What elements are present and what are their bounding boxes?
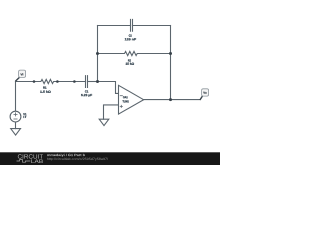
- flag Vo pointer: [200, 96, 203, 100]
- flag Vi text: [20, 73, 23, 75]
- flag Vi pointer: [15, 77, 19, 81]
- label C1: [85, 90, 88, 92]
- label V1: [23, 113, 26, 115]
- top feedback wire right segment: [133, 25, 171, 27]
- value C2 126 nF: [125, 38, 136, 40]
- op-amp minus sign: [120, 95, 122, 97]
- value R1 1.5 kOhm: [40, 91, 50, 93]
- CircuitLab logo waveform: [17, 160, 31, 163]
- value V1 1 V: [23, 116, 26, 118]
- flag Vo: [200, 89, 209, 100]
- output wire: [144, 99, 200, 101]
- logo text LAB: [31, 159, 43, 163]
- wire input corner to R1: [16, 81, 35, 83]
- node inverting input: [96, 80, 99, 83]
- flag Vi box: [19, 70, 26, 77]
- V1 plus sign: [14, 113, 17, 116]
- node feedback right: [169, 52, 172, 55]
- wire op-amp plus input to ground: [104, 105, 119, 119]
- voltage source V1 circle: [10, 111, 21, 122]
- logo text CIRCUIT: [18, 154, 43, 158]
- watermark bar: [0, 152, 220, 165]
- value R2 15 kOhm: [126, 63, 134, 65]
- label R2: [128, 59, 131, 61]
- flag Vo text: [203, 92, 206, 94]
- resistor R1: [34, 79, 57, 83]
- V1 minus sign: [14, 118, 17, 120]
- ground below V1: [11, 129, 21, 136]
- resistor R2 wire and zigzag: [98, 51, 171, 55]
- capacitor C2: [131, 19, 133, 31]
- credit line 2: [47, 158, 108, 161]
- flag Vi: [15, 70, 25, 81]
- node R1.a: [33, 80, 36, 83]
- node R1.b: [56, 80, 59, 83]
- node C1.a: [73, 80, 76, 83]
- wire inverting node to op-amp minus input: [98, 82, 119, 94]
- credit line 1: [47, 154, 85, 157]
- op-amp plus sign: [120, 105, 122, 107]
- wire V1 top to input corner: [15, 82, 17, 112]
- top feedback wire left segment: [98, 25, 131, 27]
- left vertical feedback wire: [97, 26, 99, 82]
- wire R1 to C1: [57, 81, 85, 83]
- right vertical feedback wire: [170, 26, 172, 100]
- ground at op-amp plus input: [99, 119, 109, 125]
- label TL081: [123, 100, 129, 102]
- label R1: [43, 87, 46, 89]
- node feedback left: [96, 52, 99, 55]
- label OA1: [123, 96, 128, 98]
- wire V1 bottom to ground: [15, 122, 17, 129]
- op-amp OA1 triangle: [119, 85, 144, 114]
- capacitor C1: [86, 76, 88, 88]
- label C2: [129, 35, 132, 37]
- flag Vo box: [202, 89, 209, 96]
- node output: [169, 98, 172, 101]
- junction dots: [33, 52, 172, 101]
- value C1 5.23 uF: [81, 94, 92, 97]
- wire C1 to inverting node: [88, 81, 98, 83]
